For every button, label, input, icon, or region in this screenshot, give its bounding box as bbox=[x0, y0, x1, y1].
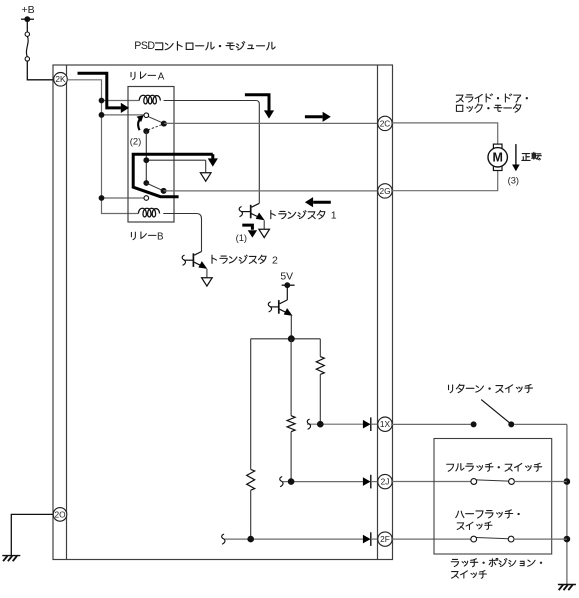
label return switch bbox=[449, 385, 453, 393]
ground (latch switches) bbox=[558, 584, 576, 586]
relay B switch bbox=[146, 183, 163, 191]
label latch position switch bbox=[451, 559, 458, 566]
svg-text:2: 2 bbox=[272, 254, 278, 266]
wire 2C to motor bbox=[391, 123, 498, 144]
ground (module 2O) bbox=[2, 555, 20, 557]
wire motor to 2G bbox=[391, 170, 498, 190]
coil relay A bbox=[139, 95, 160, 104]
terminal 2C bbox=[378, 116, 392, 130]
wire 1X to return switch bbox=[391, 423, 471, 425]
svg-text:(1): (1) bbox=[236, 232, 247, 243]
full latch switch bbox=[476, 480, 509, 481]
terminal 1X bbox=[378, 417, 392, 431]
half latch switch bbox=[476, 538, 508, 539]
middle branch wire bbox=[290, 339, 292, 416]
label relay A bbox=[131, 72, 135, 79]
svg-text:1X: 1X bbox=[380, 419, 391, 429]
svg-text:2G: 2G bbox=[379, 186, 390, 196]
wire relay B common to 2G bbox=[164, 190, 378, 192]
svg-text:(2): (2) bbox=[130, 135, 141, 146]
flow arrow from 2K into relay bbox=[78, 73, 121, 108]
terminal 2J bbox=[378, 474, 392, 488]
junction to relay A pivot bbox=[102, 114, 145, 116]
relay A switch bbox=[148, 116, 164, 123]
resistor R2 (middle) bbox=[287, 416, 295, 432]
wire ground bus vertical bbox=[566, 424, 568, 584]
label transistor 1 bbox=[271, 211, 275, 219]
wire fuse to 2K bbox=[27, 61, 54, 80]
flow arrow into 2C wire bbox=[245, 95, 269, 111]
left branch wire bbox=[250, 339, 252, 470]
flow arrow relay return to ground bbox=[133, 154, 213, 197]
diode D1 bbox=[363, 420, 371, 429]
motor M bbox=[493, 144, 502, 148]
transistor Q3 bbox=[286, 285, 288, 300]
resistor R1 (left) bbox=[247, 469, 255, 490]
junction to relay B pivot bbox=[102, 197, 145, 199]
wire +B to fuse bbox=[26, 19, 28, 32]
label half latch switch bbox=[456, 511, 464, 517]
wire coil A to transistor 1 collector bbox=[164, 101, 260, 204]
terminal 2K bbox=[54, 73, 68, 87]
flow arrow left on 2G wire bbox=[313, 201, 331, 204]
fuse/breaker bbox=[25, 32, 29, 36]
rotation arrow bbox=[515, 144, 517, 165]
latch position switch box bbox=[434, 439, 552, 555]
wire 2J to full latch switch bbox=[391, 481, 471, 483]
terminal 2F bbox=[378, 532, 392, 546]
resistor R3 (right) bbox=[316, 357, 324, 375]
coil relay B bbox=[138, 208, 159, 217]
wire 2J line bbox=[283, 481, 363, 483]
flow arrow right on 2C wire bbox=[305, 115, 323, 118]
relay contact ground wire bbox=[145, 131, 147, 183]
wire 2F to half latch switch bbox=[391, 538, 471, 540]
svg-text:2C: 2C bbox=[380, 118, 391, 128]
svg-text:2O: 2O bbox=[54, 509, 66, 519]
return switch bbox=[471, 421, 477, 427]
wire 1X line bbox=[307, 423, 363, 425]
junction to coil A bbox=[102, 100, 140, 102]
PSD control module box bbox=[53, 65, 393, 560]
wire 2F line bbox=[224, 538, 363, 540]
flow arrow (1) bbox=[242, 225, 252, 230]
ground (transistor 1) bbox=[259, 229, 270, 237]
wire return switch to ground bus bbox=[514, 423, 567, 425]
svg-text:2F: 2F bbox=[380, 534, 390, 544]
wire 2K to relay feeds bbox=[67, 80, 138, 214]
ground (relay contacts) bbox=[200, 173, 211, 181]
right branch wire bbox=[319, 339, 321, 357]
svg-text:2K: 2K bbox=[55, 74, 66, 84]
label transistor 2 bbox=[212, 255, 216, 263]
label forward rotation bbox=[522, 154, 530, 161]
svg-text:M: M bbox=[492, 151, 502, 165]
wire Q3 emitter to node bbox=[290, 316, 292, 339]
wire 2O to ground bbox=[11, 514, 53, 555]
wire relay A common to 2C bbox=[164, 122, 378, 124]
svg-text:1: 1 bbox=[331, 210, 337, 222]
svg-text:+B: +B bbox=[22, 4, 35, 16]
node bus bbox=[251, 338, 321, 340]
svg-text:(3): (3) bbox=[508, 175, 519, 186]
transistor Q1 bbox=[252, 203, 260, 207]
diode D3 bbox=[363, 535, 371, 544]
wire coil B to transistor 2 collector bbox=[163, 214, 201, 252]
label full latch switch bbox=[447, 464, 454, 471]
label relay B bbox=[131, 232, 135, 239]
terminal 2G bbox=[378, 184, 392, 198]
label slide door lock motor bbox=[456, 95, 463, 102]
svg-text:A: A bbox=[158, 72, 165, 83]
transistor Q2 bbox=[194, 252, 201, 256]
movement arrow (2) bbox=[138, 118, 140, 130]
relay A/B box bbox=[128, 87, 174, 223]
svg-text:B: B bbox=[157, 231, 164, 242]
svg-text:5V: 5V bbox=[280, 271, 293, 282]
svg-text:2J: 2J bbox=[381, 477, 390, 487]
svg-text:D: D bbox=[147, 40, 155, 52]
ground (transistor 2) bbox=[202, 278, 213, 286]
diode D2 bbox=[363, 477, 371, 486]
